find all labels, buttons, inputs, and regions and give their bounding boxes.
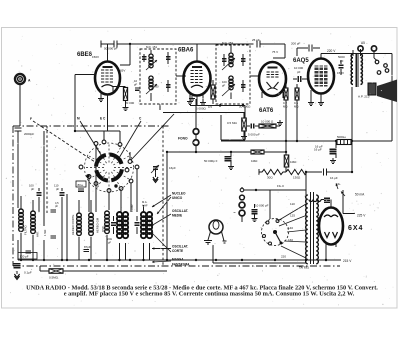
svg-text:FILTRO: FILTRO bbox=[24, 224, 28, 235]
svg-text:0.1μF: 0.1μF bbox=[24, 271, 32, 275]
svg-text:pF: pF bbox=[56, 187, 60, 191]
svg-text:COMP: COMP bbox=[130, 204, 134, 212]
svg-text:80ω: 80ω bbox=[78, 183, 84, 187]
svg-text:AEREO GM: AEREO GM bbox=[96, 217, 100, 233]
svg-text:0.5 MΩ: 0.5 MΩ bbox=[227, 121, 238, 125]
svg-text:UNICO: UNICO bbox=[172, 196, 183, 200]
svg-text:6X4: 6X4 bbox=[348, 225, 363, 232]
svg-text:pF: pF bbox=[297, 70, 301, 74]
svg-text:MΩ: MΩ bbox=[294, 105, 298, 109]
svg-text:6AQ5: 6AQ5 bbox=[293, 58, 309, 64]
svg-text:AEREO CORTE: AEREO CORTE bbox=[71, 215, 75, 235]
svg-text:pF: pF bbox=[222, 84, 226, 88]
svg-text:M.F. 253: M.F. 253 bbox=[222, 41, 233, 45]
svg-text:75 V: 75 V bbox=[272, 50, 278, 54]
svg-text:1MΩ: 1MΩ bbox=[251, 159, 258, 163]
svg-text:~: ~ bbox=[233, 210, 236, 215]
svg-text:50 000p F: 50 000p F bbox=[204, 159, 218, 163]
svg-text:150V: 150V bbox=[92, 55, 99, 59]
svg-text:87pF: 87pF bbox=[84, 245, 91, 249]
svg-text:M.A.: M.A. bbox=[142, 200, 148, 204]
svg-text:0.5MΩ.: 0.5MΩ. bbox=[49, 276, 59, 280]
svg-text:pF: pF bbox=[55, 204, 58, 208]
svg-text:16 μF: 16 μF bbox=[315, 145, 323, 149]
svg-text:ANT.: ANT. bbox=[36, 231, 40, 237]
svg-text:10 000 Ω: 10 000 Ω bbox=[261, 120, 274, 124]
svg-text:4 HF: 4 HF bbox=[142, 204, 148, 208]
svg-text:pF: pF bbox=[31, 187, 35, 191]
svg-text:130Ω: 130Ω bbox=[293, 176, 301, 180]
svg-text:5000ω: 5000ω bbox=[337, 135, 347, 139]
svg-text:10 000 pF: 10 000 pF bbox=[255, 204, 269, 208]
svg-text:OSCILLAT.: OSCILLAT. bbox=[172, 209, 188, 213]
svg-text:MΩ: MΩ bbox=[283, 105, 287, 109]
svg-text:65V: 65V bbox=[120, 69, 125, 73]
svg-text:10 000: 10 000 bbox=[150, 85, 159, 89]
svg-text:6BE6: 6BE6 bbox=[77, 52, 93, 58]
svg-text:220 V: 220 V bbox=[327, 49, 336, 53]
svg-text:2000pF: 2000pF bbox=[24, 132, 34, 136]
svg-text:FONO: FONO bbox=[178, 137, 188, 141]
svg-text:e amplif. MF placca 150 V e sc: e amplif. MF placca 150 V e schermo 85 V… bbox=[64, 291, 355, 298]
svg-text:16pF: 16pF bbox=[169, 166, 176, 170]
svg-text:16 μF: 16 μF bbox=[330, 176, 338, 180]
svg-text:22Ω: 22Ω bbox=[107, 237, 112, 241]
svg-text:A5: A5 bbox=[361, 41, 365, 45]
svg-text:5 000 pF: 5 000 pF bbox=[248, 133, 260, 137]
svg-text:125: 125 bbox=[290, 214, 295, 218]
svg-text:FIL.0: FIL.0 bbox=[277, 184, 284, 188]
svg-text:50 000Ω: 50 000Ω bbox=[239, 105, 251, 109]
svg-text:6AT6: 6AT6 bbox=[259, 108, 274, 114]
svg-text:pF: pF bbox=[134, 83, 138, 87]
svg-text:220: 220 bbox=[281, 255, 286, 259]
svg-text:150V: 150V bbox=[337, 71, 344, 75]
svg-text:6BA6: 6BA6 bbox=[178, 48, 194, 54]
svg-text:MEDIE: MEDIE bbox=[172, 214, 182, 218]
svg-text:NUCLEO: NUCLEO bbox=[172, 192, 186, 196]
svg-text:OSCILLAT.: OSCILLAT. bbox=[172, 245, 188, 249]
svg-text:225 V: 225 V bbox=[357, 214, 366, 218]
svg-text:5 000Ω: 5 000Ω bbox=[196, 107, 207, 111]
svg-text:1 MΩ: 1 MΩ bbox=[43, 230, 47, 236]
svg-text:F: F bbox=[30, 117, 32, 121]
svg-text:M.F. 151: M.F. 151 bbox=[146, 45, 157, 49]
svg-text:20 000: 20 000 bbox=[125, 101, 135, 105]
svg-text:50 000 pF: 50 000 pF bbox=[104, 47, 118, 51]
svg-text:E C: E C bbox=[100, 117, 106, 121]
svg-text:140: 140 bbox=[288, 226, 293, 230]
svg-text:OSC.: OSC. bbox=[101, 225, 105, 232]
svg-text:FANTASMA: FANTASMA bbox=[172, 263, 190, 267]
svg-text:215 V: 215 V bbox=[343, 259, 352, 263]
svg-text:CORTE: CORTE bbox=[172, 249, 183, 253]
svg-text:25 pF: 25 pF bbox=[252, 38, 260, 42]
svg-text:pF: pF bbox=[108, 241, 111, 245]
svg-text:MASSA: MASSA bbox=[172, 258, 184, 262]
svg-text:50 mA: 50 mA bbox=[355, 193, 365, 197]
svg-text:M: M bbox=[77, 117, 80, 121]
svg-text:200 pF: 200 pF bbox=[291, 42, 301, 46]
svg-text:30Ω: 30Ω bbox=[267, 176, 273, 180]
svg-text:1MΩ: 1MΩ bbox=[290, 160, 297, 164]
svg-text:110: 110 bbox=[290, 202, 295, 206]
